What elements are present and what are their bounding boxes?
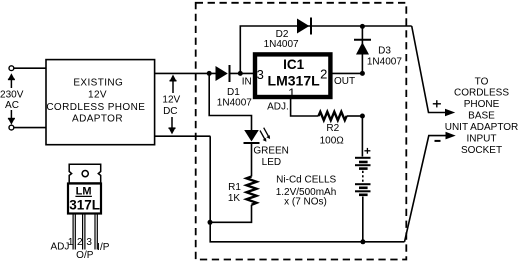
- svg-text:PHONE: PHONE: [464, 99, 500, 110]
- svg-text:1N4007: 1N4007: [217, 98, 252, 109]
- svg-text:317L: 317L: [69, 198, 100, 213]
- terminal top-left: [9, 66, 14, 71]
- LM317L package body: [68, 184, 101, 214]
- svg-text:12V: 12V: [162, 95, 180, 106]
- svg-text:1K: 1K: [228, 193, 241, 204]
- svg-text:2: 2: [77, 237, 83, 248]
- svg-text:Ni-Cd CELLS: Ni-Cd CELLS: [276, 175, 336, 186]
- svg-text:TO: TO: [475, 76, 489, 87]
- svg-text:D3: D3: [378, 45, 391, 56]
- svg-text:OUT: OUT: [334, 76, 355, 87]
- LM underline: [75, 195, 92, 197]
- svg-text:D1: D1: [227, 87, 240, 98]
- label battery +: [364, 148, 370, 154]
- node input junction: [207, 71, 212, 76]
- wire D2 branch: [240, 26, 411, 73]
- dashed enclosure: [196, 3, 407, 260]
- svg-text:ADJ.: ADJ.: [267, 102, 289, 113]
- wire output negative diagonal: [405, 136, 448, 242]
- svg-text:R1: R1: [228, 182, 241, 193]
- svg-text:CORDLESS: CORDLESS: [454, 88, 509, 99]
- terminal bottom-left: [9, 125, 14, 130]
- svg-text:GREEN: GREEN: [253, 146, 289, 157]
- svg-text:R2: R2: [326, 123, 339, 134]
- svg-text:1N4007: 1N4007: [264, 39, 299, 50]
- wire R1 bottom: [210, 205, 252, 223]
- node OUT top: [360, 24, 365, 29]
- wire R2 to node: [347, 115, 363, 117]
- svg-text:2: 2: [320, 67, 327, 82]
- wire OUT: [332, 72, 362, 74]
- wire output positive diagonal: [412, 26, 447, 113]
- svg-text:O/P: O/P: [76, 250, 94, 261]
- label + output: [433, 100, 441, 107]
- node OUT: [360, 71, 365, 76]
- LED arrows: [260, 128, 270, 142]
- node R2/battery: [360, 114, 365, 119]
- svg-text:3: 3: [86, 237, 92, 248]
- svg-text:1N4007: 1N4007: [367, 56, 402, 67]
- svg-text:ADJ: ADJ: [50, 242, 69, 253]
- svg-text:DC: DC: [163, 106, 177, 117]
- node negative junction: [208, 220, 213, 225]
- svg-text:CORDLESS PHONE: CORDLESS PHONE: [46, 102, 145, 113]
- label TO CORDLESS PHONE BASE UNIT ADAPTOR INPUT SOCKET: [445, 76, 519, 156]
- wire: [14, 127, 46, 129]
- svg-text:IN: IN: [242, 77, 252, 88]
- svg-text:LED: LED: [262, 157, 281, 168]
- svg-text:I/P: I/P: [97, 242, 110, 253]
- svg-text:BASE: BASE: [468, 111, 495, 122]
- adaptor box: [46, 60, 155, 145]
- wire battery bottom: [362, 197, 364, 242]
- wire negative rail: [210, 136, 404, 242]
- svg-text:AC: AC: [5, 100, 19, 111]
- LED green: [244, 130, 260, 143]
- battery Ni-Cd cells: [355, 158, 371, 195]
- wire adaptor top output: [155, 72, 216, 74]
- 230V AC source arrow: [8, 73, 15, 125]
- svg-text:SOCKET: SOCKET: [461, 145, 502, 156]
- adaptor box text: [46, 78, 145, 125]
- resistor R1: [247, 177, 257, 205]
- node battery negative: [360, 239, 365, 244]
- package pins: [73, 214, 97, 250]
- svg-text:3: 3: [257, 67, 264, 82]
- wire LED to R1: [251, 143, 253, 177]
- LM317L package tab: [69, 164, 101, 183]
- arrow output positive: [445, 109, 455, 117]
- IC1 LM317L regulator box: [255, 54, 330, 97]
- svg-text:EXISTING: EXISTING: [73, 78, 123, 89]
- svg-text:100Ω: 100Ω: [320, 136, 345, 147]
- wire battery top: [361, 116, 363, 157]
- resistor R2: [319, 112, 347, 120]
- label - output: [435, 140, 441, 142]
- svg-text:ADAPTOR: ADAPTOR: [72, 114, 123, 125]
- svg-text:1: 1: [288, 86, 295, 101]
- wire adaptor bottom output: [155, 135, 210, 137]
- arrow output negative: [446, 132, 456, 140]
- wire: [14, 67, 46, 69]
- svg-text:IC1: IC1: [283, 57, 305, 72]
- svg-text:INPUT: INPUT: [467, 133, 497, 144]
- wire LED branch: [209, 73, 251, 130]
- 12V DC arrow: [169, 75, 177, 135]
- node D2 tap: [238, 71, 243, 76]
- diode D3: [354, 26, 371, 73]
- svg-text:230V: 230V: [0, 89, 24, 100]
- svg-text:x (7 NOs): x (7 NOs): [284, 197, 327, 208]
- diode D1: [216, 65, 254, 82]
- svg-text:UNIT ADAPTOR: UNIT ADAPTOR: [445, 122, 519, 133]
- wire ADJ: [291, 99, 319, 116]
- diode D2: [297, 18, 311, 35]
- svg-text:12V: 12V: [88, 90, 107, 101]
